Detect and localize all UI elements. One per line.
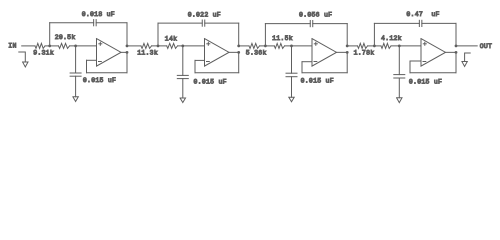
wire op-amp U2 minus input: [195, 59, 205, 61]
ground (output): [462, 62, 467, 67]
wire R1 to node A1: [45, 45, 59, 47]
wire unity feedback right up: [346, 52, 348, 72]
svg-text:11.5k: 11.5k: [272, 35, 293, 42]
wire node B3 down to cap C6: [291, 46, 293, 73]
node B3 junction: [290, 45, 293, 48]
wire R8 to op-amp + input: [391, 45, 421, 47]
wire feedback top left: [265, 23, 310, 25]
svg-text:IN: IN: [8, 43, 16, 50]
wire unity feedback right up: [126, 52, 128, 72]
capacitor C7 (0.47 uF): [418, 20, 420, 26]
svg-text:0.015 uF: 0.015 uF: [194, 79, 227, 86]
node B4 junction: [398, 45, 401, 48]
resistor R1 (9.31k): [35, 43, 45, 48]
node A2 junction: [157, 45, 160, 48]
wire stage 3 output to stage 4: [347, 45, 357, 47]
ground (stage 3): [289, 97, 294, 102]
ground (input): [23, 62, 28, 67]
wire R4 to op-amp + input: [178, 45, 205, 47]
wire node A3 up to feedback cap: [264, 24, 266, 46]
wire unity feedback bottom: [410, 72, 456, 74]
wire IN to R1: [22, 45, 35, 47]
wire op-amp U4 minus input: [410, 60, 421, 62]
op-amp U4: [421, 39, 446, 67]
capacitor C8 (0.015 uF): [394, 74, 405, 76]
wire output to OUT: [456, 45, 477, 47]
svg-text:11.3k: 11.3k: [137, 50, 158, 57]
wire op-amp U4 output: [446, 51, 457, 53]
wire unity feedback left down: [301, 62, 303, 73]
svg-text:9.31k: 9.31k: [33, 49, 54, 56]
wire feedback top left: [158, 22, 202, 24]
ground (stage 2): [180, 98, 185, 103]
svg-text:0.022 uF: 0.022 uF: [188, 11, 221, 18]
wire unity feedback bottom: [195, 72, 239, 74]
wire node A4 up to feedback cap: [373, 23, 375, 46]
node A1 junction: [48, 45, 51, 48]
resistor R3 (11.3k): [141, 43, 152, 48]
resistor R2 (20.5k): [59, 43, 70, 48]
svg-text:1.78k: 1.78k: [354, 50, 375, 57]
wire op-amp U1 output: [121, 51, 127, 53]
wire R2 to op-amp + input: [70, 45, 97, 47]
wire op-amp U3 minus input: [302, 61, 312, 63]
node output main-line junction: [237, 45, 240, 48]
capacitor C3 (0.022 uF): [201, 20, 203, 26]
wire unity feedback right up: [455, 52, 457, 72]
OUT load ground stub: [465, 53, 471, 61]
capacitor C4 (0.015 uF): [177, 74, 188, 76]
wire op-amp U2 output: [229, 51, 239, 53]
wire R5 to node A3: [260, 45, 275, 47]
wire cap C6 to ground: [291, 77, 293, 98]
wire unity feedback left down: [86, 60, 88, 72]
node output U3 junction: [346, 51, 349, 54]
op-amp U3: [312, 39, 337, 67]
IN source ground stub: [19, 52, 26, 62]
wire feedback top right: [205, 22, 239, 24]
wire stage 2 output to stage 3: [239, 45, 249, 47]
wire op-amp U3 output: [337, 51, 348, 53]
op-amp U1 plus input marker: [99, 43, 102, 45]
resistor R5 (5.36k): [249, 43, 260, 48]
op-amp U2: [205, 39, 230, 67]
ground (stage 1): [73, 97, 78, 102]
op-amp U1 minus input marker: [99, 61, 102, 63]
wire R6 to op-amp + input: [285, 45, 313, 47]
wire feedback top left: [374, 22, 419, 24]
wire unity feedback left down: [409, 61, 411, 73]
ground (stage 4): [397, 98, 402, 103]
resistor R7 (1.78k): [358, 43, 368, 48]
wire feedback down to output node: [238, 23, 240, 46]
wire node A1 up to feedback cap: [49, 23, 51, 46]
node output U4 junction: [455, 51, 458, 54]
resistor R4 (14k): [167, 43, 178, 48]
svg-text:5.36k: 5.36k: [246, 50, 267, 57]
svg-text:4.12k: 4.12k: [381, 35, 402, 42]
capacitor C6 (0.015 uF): [286, 72, 297, 74]
op-amp U3 plus input marker: [314, 43, 317, 45]
wire feedback down to output node: [455, 23, 457, 46]
svg-text:0.018 uF: 0.018 uF: [82, 11, 115, 18]
wire feedback top right: [313, 23, 347, 25]
svg-text:0.015 uF: 0.015 uF: [301, 78, 334, 85]
wire stage 1 output to stage 2: [127, 45, 141, 47]
wire cap C8 to ground: [398, 78, 400, 98]
node output main-line junction: [455, 45, 458, 48]
node B2 junction: [181, 45, 184, 48]
wire cap C2 to ground: [75, 76, 77, 97]
op-amp U4 minus input marker: [423, 61, 426, 63]
wire R3 to node A2: [152, 45, 167, 47]
resistor R6 (11.5k): [274, 43, 284, 48]
op-amp U2 minus input marker: [207, 61, 210, 63]
op-amp U1: [97, 39, 122, 67]
node A3 junction: [264, 45, 267, 48]
wire node A2 up to feedback cap: [157, 23, 159, 46]
wire feedback top right: [96, 22, 127, 24]
wire cap C4 to ground: [182, 79, 184, 98]
wire feedback down to output node: [126, 23, 128, 46]
op-amp U3 minus input marker: [314, 61, 317, 63]
svg-text:20.5k: 20.5k: [55, 34, 76, 41]
wire unity feedback bottom: [302, 72, 347, 74]
op-amp U2 plus input marker: [207, 43, 210, 45]
wire unity feedback right up: [238, 52, 240, 72]
node output U1 junction: [126, 51, 129, 54]
svg-text:0.015 uF: 0.015 uF: [83, 77, 116, 84]
svg-text:0.056 uF: 0.056 uF: [299, 12, 332, 19]
node A4 junction: [373, 45, 376, 48]
capacitor C1 (0.018 uF): [93, 20, 95, 26]
wire op-amp U1 minus input: [87, 59, 97, 61]
resistor R8 (4.12k): [381, 43, 391, 48]
node output U2 junction: [237, 51, 240, 54]
wire feedback top right: [422, 22, 456, 24]
node output main-line junction: [126, 45, 129, 48]
wire node B2 down to cap C4: [182, 46, 184, 76]
capacitor C2 (0.015 uF): [70, 72, 81, 74]
wire feedback down to output node: [346, 24, 348, 46]
svg-text:14k: 14k: [165, 35, 177, 42]
wire node B1 down to cap C2: [75, 46, 77, 73]
wire unity feedback bottom: [87, 72, 128, 74]
svg-text:OUT: OUT: [480, 43, 492, 50]
wire node B4 down to cap C8: [398, 46, 400, 75]
op-amp U4 plus input marker: [423, 43, 426, 45]
wire feedback top left: [50, 22, 94, 24]
node B1 junction: [74, 45, 77, 48]
wire unity feedback left down: [194, 60, 196, 72]
svg-text:0.015 uF: 0.015 uF: [409, 78, 442, 85]
node output main-line junction: [346, 45, 349, 48]
capacitor C5 (0.056 uF): [309, 21, 311, 27]
wire R7 to node A4: [368, 45, 382, 47]
svg-text:0.47 uF: 0.47 uF: [406, 11, 439, 18]
